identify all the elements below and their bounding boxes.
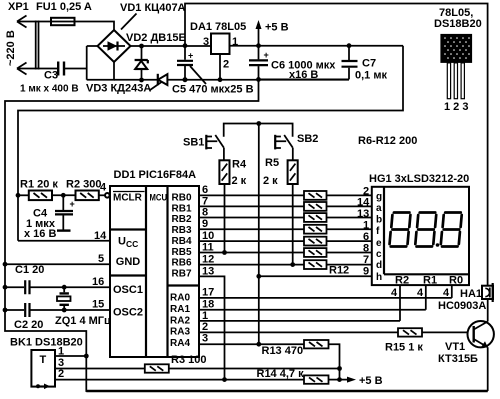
svg-text:BK1 DS18B20: BK1 DS18B20 bbox=[10, 337, 83, 349]
svg-text:a: a bbox=[376, 203, 382, 214]
svg-text:RB6: RB6 bbox=[172, 258, 192, 269]
svg-text:R1: R1 bbox=[423, 275, 437, 287]
svg-text:T: T bbox=[40, 354, 47, 366]
wire RA4 row to R13 bbox=[199, 343, 304, 345]
svg-text:d: d bbox=[376, 260, 382, 271]
svg-text:RB7: RB7 bbox=[172, 268, 192, 279]
svg-text:R6-R12 200: R6-R12 200 bbox=[358, 135, 417, 147]
svg-text:17: 17 bbox=[202, 287, 214, 299]
svg-text:C5 470 мкx25 В: C5 470 мкx25 В bbox=[172, 84, 254, 96]
7-seg digits bbox=[389, 213, 462, 247]
svg-text:g: g bbox=[376, 192, 382, 203]
svg-text:RB4: RB4 bbox=[172, 236, 192, 247]
svg-text:7: 7 bbox=[363, 254, 369, 266]
fuse FU1 bbox=[51, 18, 75, 25]
capacitor C1 bbox=[3, 264, 110, 294]
svg-text:0,1 мк: 0,1 мк bbox=[355, 69, 387, 81]
wire RA3 row to R15 bbox=[199, 331, 398, 333]
svg-text:2: 2 bbox=[58, 368, 64, 380]
wire buttons center vertical bbox=[258, 124, 260, 345]
wire R5 bottom vertical bbox=[292, 184, 294, 265]
svg-text:RB2: RB2 bbox=[172, 214, 192, 225]
svg-text:DA1 78L05: DA1 78L05 bbox=[190, 21, 246, 33]
svg-text:5: 5 bbox=[98, 253, 104, 265]
svg-text:+5 В: +5 В bbox=[265, 22, 289, 34]
svg-text:18: 18 bbox=[202, 298, 214, 310]
svg-text:1: 1 bbox=[58, 346, 64, 358]
capacitor C5 bbox=[172, 43, 254, 95]
resistor R11 bbox=[304, 248, 327, 257]
svg-text:4: 4 bbox=[100, 182, 107, 194]
node +5V arrow bottom bbox=[340, 379, 349, 381]
svg-text:9: 9 bbox=[363, 265, 369, 277]
svg-text:R3 100: R3 100 bbox=[171, 354, 206, 366]
wire RB4 row bbox=[199, 240, 372, 242]
wire plus rail after bridge bbox=[131, 45, 212, 47]
svg-text:VD1 КЦ407А: VD1 КЦ407А bbox=[120, 2, 186, 14]
resistor R6 bbox=[304, 191, 327, 200]
svg-text:3: 3 bbox=[202, 332, 208, 344]
zener VD2 bbox=[126, 32, 186, 82]
wire RB7 pin13 DQ bbox=[199, 276, 225, 380]
svg-text:R1 20 к: R1 20 к bbox=[20, 179, 58, 191]
resistor R8 bbox=[304, 213, 327, 222]
pushbutton SB2 bbox=[275, 133, 318, 160]
svg-text:10: 10 bbox=[202, 230, 214, 242]
svg-text:+: + bbox=[70, 199, 75, 209]
svg-text:R0: R0 bbox=[449, 275, 463, 287]
svg-text:SB2: SB2 bbox=[297, 133, 318, 145]
resistor R13 bbox=[304, 340, 329, 348]
svg-text:R12: R12 bbox=[329, 264, 349, 276]
wire RA0 row to R0 bbox=[199, 297, 452, 299]
resistor R12 bbox=[304, 260, 327, 269]
bridge rectifier VD1 bbox=[98, 2, 186, 62]
node ~220V arrow top bbox=[17, 16, 27, 28]
capacitor C6 bbox=[249, 46, 336, 82]
svg-text:RB3: RB3 bbox=[172, 225, 192, 236]
wire h row bbox=[259, 275, 372, 277]
svg-text:1: 1 bbox=[363, 219, 369, 231]
pin numbers right of DD1 bbox=[202, 184, 214, 344]
resistor R5 bbox=[263, 157, 298, 187]
svg-text:R4: R4 bbox=[232, 159, 247, 171]
svg-text:RA1: RA1 bbox=[170, 304, 190, 315]
svg-text:HA1: HA1 bbox=[460, 288, 482, 300]
svg-text:GND: GND bbox=[116, 256, 141, 268]
wire buttons top bbox=[224, 124, 293, 137]
resistor R2 bbox=[52, 179, 101, 201]
svg-text:SB1: SB1 bbox=[183, 137, 204, 149]
regulator DA1 78L05 bbox=[190, 21, 403, 82]
svg-text:11: 11 bbox=[202, 241, 214, 253]
svg-text:8: 8 bbox=[363, 243, 369, 255]
wire RA2 row to R2 bbox=[199, 320, 400, 322]
wire RB6 row bbox=[199, 264, 372, 266]
svg-text:VD2 ДВ15Е: VD2 ДВ15Е bbox=[126, 32, 186, 44]
capacitor C2 bbox=[3, 299, 110, 332]
wire HA1 feed from raw plus bbox=[185, 4, 488, 286]
svg-text:6: 6 bbox=[363, 231, 369, 243]
wire GND pin 5 bbox=[5, 263, 110, 265]
wire +5V loop right-to-left bbox=[18, 46, 403, 241]
svg-text:DS18B20: DS18B20 bbox=[434, 18, 482, 30]
svg-text:2 к: 2 к bbox=[232, 175, 247, 187]
diode VD3 bbox=[86, 74, 349, 95]
crystal ZQ1 bbox=[55, 285, 111, 327]
svg-text:R14 4,7 к: R14 4,7 к bbox=[257, 368, 305, 380]
svg-text:R15 1 к: R15 1 к bbox=[385, 342, 423, 354]
svg-text:RB1: RB1 bbox=[172, 203, 192, 214]
svg-text:OSC1: OSC1 bbox=[113, 284, 143, 296]
capacitor C7 bbox=[342, 43, 388, 81]
svg-text:R2 300: R2 300 bbox=[66, 179, 101, 191]
svg-text:R2: R2 bbox=[395, 275, 409, 287]
svg-text:+: + bbox=[264, 50, 269, 60]
wire bottom mains bbox=[17, 68, 58, 70]
node +5V arrow bbox=[256, 20, 289, 48]
svg-text:2 к: 2 к bbox=[263, 175, 278, 187]
resistor R3 bbox=[145, 364, 169, 372]
wire R4 bottom vertical bbox=[224, 184, 226, 253]
svg-text:b: b bbox=[376, 214, 382, 225]
svg-text:КТ315Б: КТ315Б bbox=[438, 353, 478, 365]
svg-text:RA4: RA4 bbox=[170, 338, 190, 349]
capacitor C4 bbox=[24, 195, 75, 240]
svg-text:15: 15 bbox=[92, 299, 104, 311]
svg-text:R5: R5 bbox=[265, 157, 279, 169]
svg-text:MCLR: MCLR bbox=[113, 193, 143, 204]
wire GND loop bbox=[5, 79, 488, 391]
svg-text:1: 1 bbox=[202, 310, 208, 322]
resistor R1 bbox=[16, 179, 59, 201]
resistor R10 bbox=[304, 237, 327, 246]
svg-text:MCU: MCU bbox=[150, 193, 168, 204]
svg-text:RB0: RB0 bbox=[172, 193, 192, 204]
node ~220V arrow bottom bbox=[17, 63, 27, 75]
svg-text:14: 14 bbox=[357, 196, 370, 208]
svg-text:RA3: RA3 bbox=[170, 327, 190, 338]
svg-text:RB5: RB5 bbox=[172, 247, 192, 258]
connector XP1 double bars bbox=[36, 21, 39, 70]
svg-text:C1 20: C1 20 bbox=[15, 264, 44, 276]
svg-text:+5 В: +5 В bbox=[359, 375, 383, 387]
svg-text:HG1 3xLSD3212-20: HG1 3xLSD3212-20 bbox=[369, 173, 469, 185]
svg-text:1 2 3: 1 2 3 bbox=[444, 101, 468, 113]
resistor R15 bbox=[398, 328, 422, 336]
wire top mains bbox=[17, 22, 114, 31]
decimal point bbox=[436, 243, 440, 247]
svg-text:FU1 0,25 A: FU1 0,25 A bbox=[36, 1, 92, 13]
svg-text:9: 9 bbox=[202, 218, 208, 230]
wire RA1 row to R1 bbox=[199, 309, 426, 311]
svg-text:~220 В: ~220 В bbox=[5, 30, 17, 66]
wire RB3 row bbox=[199, 228, 372, 230]
svg-text:+: + bbox=[188, 51, 193, 61]
svg-text:2: 2 bbox=[202, 321, 208, 333]
svg-text:C3: C3 bbox=[44, 70, 58, 82]
wire bridge left leg bbox=[87, 46, 114, 80]
wire GND lower rail to C7 bbox=[259, 78, 350, 80]
transistor VT1 bbox=[438, 299, 494, 391]
pushbutton SB1 bbox=[183, 135, 224, 161]
sensor BK1 bbox=[10, 337, 304, 390]
svg-text:XP1: XP1 bbox=[8, 1, 29, 13]
wire Ucc pin 14 bbox=[18, 240, 110, 242]
svg-text:VT1: VT1 bbox=[445, 341, 465, 353]
svg-text:C2 20: C2 20 bbox=[14, 319, 43, 331]
buzzer HA1 bbox=[438, 283, 493, 312]
svg-text:RA0: RA0 bbox=[170, 292, 190, 303]
svg-text:e: e bbox=[376, 238, 382, 249]
svg-text:1 мк x 400 В: 1 мк x 400 В bbox=[20, 83, 79, 94]
display pin numbers bbox=[357, 185, 370, 277]
svg-text:ZQ1 4 МГц: ZQ1 4 МГц bbox=[55, 315, 111, 327]
svg-text:RA2: RA2 bbox=[170, 315, 190, 326]
resistor R14 bbox=[304, 375, 329, 383]
svg-text:C7: C7 bbox=[362, 58, 376, 70]
svg-text:h: h bbox=[376, 272, 382, 283]
resistor R4 bbox=[219, 159, 247, 188]
resistor R9 bbox=[304, 225, 327, 234]
svg-text:12: 12 bbox=[202, 253, 214, 265]
capacitor C3 bbox=[58, 62, 64, 76]
wire RB1 row bbox=[199, 205, 372, 207]
resistor R7 bbox=[304, 202, 327, 211]
wire bottom ground rail thick bbox=[86, 390, 487, 392]
svg-text:8: 8 bbox=[202, 206, 208, 218]
wire RB0 row bbox=[199, 194, 372, 196]
svg-text:3: 3 bbox=[203, 36, 209, 48]
svg-text:13: 13 bbox=[357, 208, 369, 220]
svg-text:c: c bbox=[376, 249, 382, 260]
svg-text:14: 14 bbox=[94, 230, 107, 242]
svg-text:VD3 КД243А: VD3 КД243А bbox=[86, 83, 151, 95]
svg-text:DD1 PIC16F84A: DD1 PIC16F84A bbox=[114, 169, 197, 181]
svg-text:x 16 В: x 16 В bbox=[24, 228, 56, 240]
svg-text:2: 2 bbox=[223, 59, 229, 71]
svg-text:R13 470: R13 470 bbox=[262, 345, 304, 357]
wire RB2 row bbox=[199, 217, 372, 219]
svg-text:OSC2: OSC2 bbox=[113, 307, 143, 319]
svg-text:13: 13 bbox=[202, 265, 214, 277]
display common pins 4 4 4 bbox=[391, 285, 452, 321]
svg-text:16: 16 bbox=[92, 276, 104, 288]
svg-text:HC0903A: HC0903A bbox=[438, 300, 486, 312]
wire RB5 row bbox=[199, 252, 372, 254]
pin 4 MCLR with inversion circle bbox=[99, 194, 105, 196]
